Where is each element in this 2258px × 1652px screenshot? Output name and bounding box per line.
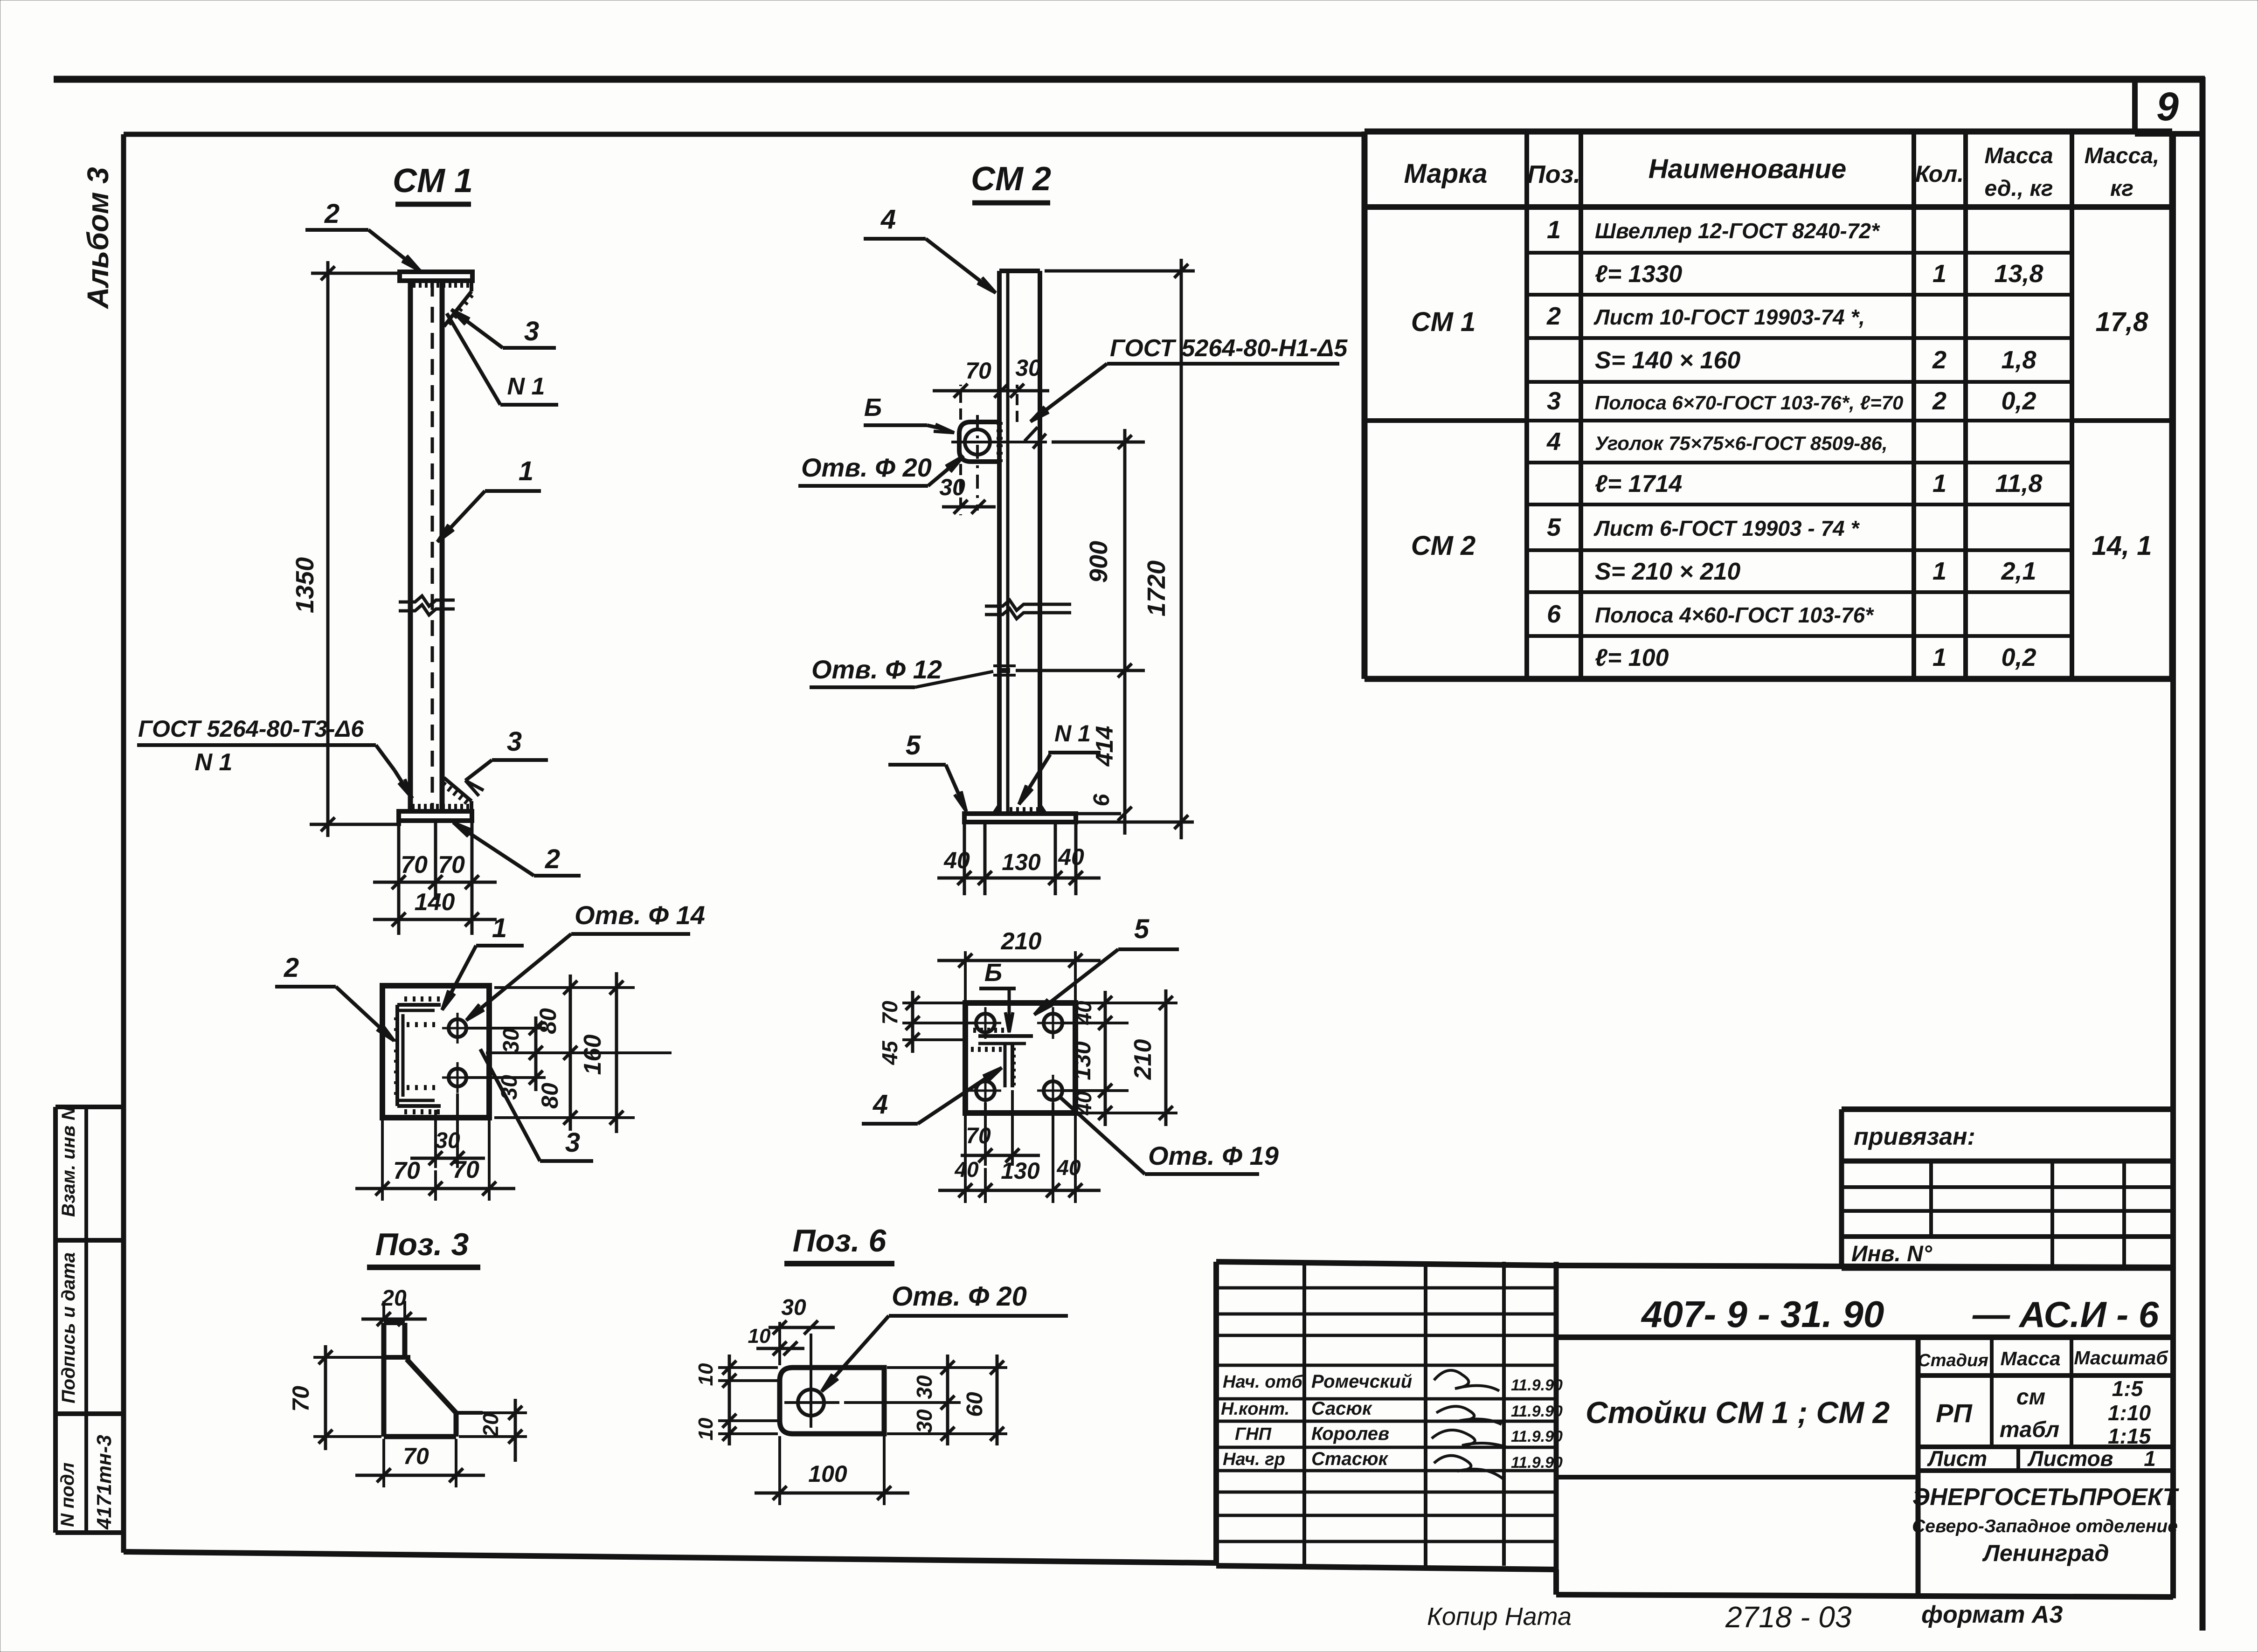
CM1 leader 3 top [451, 310, 556, 348]
svg-text:1: 1 [2144, 1446, 2156, 1471]
CM2 base plate plan (pos.5) [965, 1003, 1075, 1113]
spec row 8: Лист 6 [1547, 513, 1860, 541]
svg-text:13,8: 13,8 [1994, 260, 2043, 288]
svg-text:Отв. Ф 14: Отв. Ф 14 [575, 900, 705, 930]
pos.6 bottom dim 100 [755, 1436, 909, 1505]
svg-text:1: 1 [519, 456, 533, 486]
CM2 tab (pos.6) with hole [951, 415, 1047, 511]
svg-text:ед., кг: ед., кг [1985, 176, 2053, 201]
CM2 leader Отв Ф12 [810, 655, 993, 687]
svg-text:2: 2 [1932, 346, 1946, 374]
inner frame bottom border [124, 1552, 1216, 1563]
svg-text:Нач. гр: Нач. гр [1223, 1450, 1285, 1469]
spec row 11: ℓ= 100 [1595, 643, 2036, 671]
svg-text:100: 100 [808, 1461, 847, 1487]
svg-text:0,2: 0,2 [2001, 643, 2036, 671]
svg-text:N 1: N 1 [1054, 720, 1091, 747]
svg-text:30: 30 [912, 1409, 936, 1433]
CM2 base plate (pos.5) [964, 814, 1194, 822]
CM2 dim 70 30 above tab [933, 355, 1049, 422]
svg-text:Кол.: Кол. [1915, 161, 1964, 187]
CM1 plan hole top Ф14 [442, 1013, 473, 1044]
svg-text:N 1: N 1 [195, 749, 233, 776]
svg-text:70: 70 [438, 851, 465, 878]
CM2 weld mark N1 bottom [1019, 720, 1101, 804]
pos.6 dim 10 top [748, 1325, 804, 1355]
svg-text:45: 45 [878, 1040, 902, 1065]
svg-text:Отв. Ф 20: Отв. Ф 20 [801, 453, 932, 482]
CM2 plan top dim 210 [937, 928, 1101, 1001]
total mass CM1 17,8 [2096, 307, 2149, 337]
svg-text:40: 40 [1058, 844, 1084, 870]
CM1 leader 3 bottom [465, 726, 548, 796]
CM1 plan hole bottom Ф14 [442, 1062, 473, 1093]
svg-text:Марка: Марка [1404, 159, 1487, 189]
page outer right border [2200, 77, 2206, 1631]
svg-text:3: 3 [507, 726, 522, 757]
svg-text:Поз. 3: Поз. 3 [375, 1227, 469, 1262]
CM1 plan right dims 30 30 [466, 1016, 672, 1100]
spec table headers [1404, 144, 2159, 201]
spec rows: марка CM2 [1411, 531, 1476, 561]
CM2 leader Отв Ф20 [798, 453, 963, 486]
svg-text:17,8: 17,8 [2096, 307, 2149, 337]
svg-text:Масса: Масса [1984, 144, 2053, 168]
svg-text:ℓ= 1714: ℓ= 1714 [1595, 470, 1682, 498]
CM1 base plate plan (pos.2) [382, 986, 489, 1118]
CM1 top gusset (pos.3) [444, 281, 473, 326]
CM2 plan left dims 70 45 [878, 991, 976, 1065]
privyazan box [1842, 1109, 2173, 1268]
svg-text:Б: Б [984, 959, 1002, 987]
sheet row Лист Листов 1 [1918, 1446, 2173, 1471]
svg-text:6: 6 [1547, 600, 1561, 628]
CM1 plan right dim 160 [579, 972, 623, 1133]
svg-text:4171тн-3: 4171тн-3 [93, 1435, 116, 1530]
svg-text:ℓ= 1330: ℓ= 1330 [1595, 261, 1682, 288]
svg-text:30: 30 [1015, 355, 1041, 381]
spec table grid [1364, 131, 2172, 679]
svg-text:11,8: 11,8 [1995, 470, 2042, 498]
organization ЭНЕРГОСЕТЬПРОЕКТ [1912, 1484, 2179, 1566]
CM1 weld mark N1 top [447, 313, 558, 405]
svg-text:1: 1 [1932, 557, 1946, 585]
svg-text:5: 5 [1547, 513, 1561, 541]
svg-text:80: 80 [537, 1083, 563, 1109]
svg-text:Северо-Западное отделение: Северо-Западное отделение [1912, 1516, 2178, 1536]
svg-text:N подл: N подл [57, 1462, 78, 1527]
copy annotation Копир Ната 2718-03 [1427, 1600, 1852, 1634]
CM2 leader Б [864, 394, 954, 433]
format annotation формат А3 [1921, 1601, 2063, 1628]
pos.3 dim 70 bottom [355, 1439, 485, 1487]
sheet number 9 [2156, 84, 2179, 129]
CM1 weld under top plate [414, 282, 468, 288]
spec row 2: ℓ= 1330 [1595, 260, 2043, 288]
svg-text:Уголок 75×75×6-ГОСТ 8509-86,: Уголок 75×75×6-ГОСТ 8509-86, [1595, 432, 1888, 454]
svg-text:1: 1 [1932, 470, 1946, 498]
CM2 plan hole Ф19 top-left [970, 1007, 1001, 1039]
svg-text:70: 70 [878, 1001, 902, 1025]
svg-text:5: 5 [906, 730, 921, 760]
svg-text:14, 1: 14, 1 [2092, 531, 2152, 561]
svg-text:2718 - 03: 2718 - 03 [1725, 1600, 1852, 1634]
svg-text:40: 40 [943, 847, 970, 873]
CM1 plan channel section (pos.1) [394, 996, 441, 1114]
svg-text:11.9.90: 11.9.90 [1511, 1376, 1563, 1394]
CM2 plan angle section (pos.4) [972, 1028, 1033, 1087]
CM1 plan leader Отв Ф14 [466, 900, 705, 1020]
svg-text:Поз. 6: Поз. 6 [793, 1223, 887, 1258]
inner frame left border [121, 134, 126, 1553]
svg-text:Взам. инв N: Взам. инв N [58, 1106, 79, 1217]
svg-text:130: 130 [1002, 849, 1041, 875]
svg-text:10: 10 [748, 1325, 771, 1348]
margin box Подпись и дата [55, 1240, 124, 1414]
signature table grid [1216, 1262, 1556, 1570]
pos.6 dim 30 top [769, 1295, 835, 1365]
pos.3 dim 20 right [459, 1399, 527, 1462]
CM1 plan leader 3 [480, 1049, 593, 1161]
CM1 plan bottom dim 30 [410, 1093, 485, 1168]
svg-text:210: 210 [1129, 1039, 1157, 1080]
svg-text:ГОСТ 5264-80-Н1-Δ5: ГОСТ 5264-80-Н1-Δ5 [1110, 335, 1348, 362]
CM2 bottom dims 40 130 40 [937, 824, 1101, 895]
svg-text:Отв. Ф 20: Отв. Ф 20 [892, 1281, 1027, 1312]
svg-text:Стасюк: Стасюк [1311, 1449, 1389, 1469]
svg-text:Стойки СМ 1 ; СМ 2: Стойки СМ 1 ; СМ 2 [1586, 1395, 1890, 1430]
svg-text:130: 130 [1001, 1158, 1040, 1184]
CM2 dim 1720 [1045, 259, 1195, 839]
signature row Нач.отб Ромечский [1223, 1370, 1563, 1394]
CM1 leader 1 (channel) [437, 456, 541, 542]
total mass CM2 14,1 [2092, 531, 2152, 561]
pos.3 dim 20 top [361, 1286, 427, 1326]
svg-text:1720: 1720 [1143, 560, 1171, 616]
svg-text:РП: РП [1936, 1398, 1973, 1428]
spec rows: марка CM1 [1411, 307, 1476, 337]
stage/mass/scale header [1918, 1337, 2173, 1597]
svg-text:Лист: Лист [1927, 1446, 1987, 1471]
svg-text:70: 70 [393, 1157, 420, 1184]
svg-text:1: 1 [1932, 260, 1946, 288]
CM2 plan leader 5 [1034, 914, 1179, 1015]
CM2 base weld fillets [992, 803, 1047, 814]
svg-text:Подпись и дата: Подпись и дата [58, 1252, 79, 1403]
svg-text:Поз.: Поз. [1527, 160, 1580, 188]
privyazan label [1854, 1123, 1975, 1150]
svg-text:20: 20 [381, 1286, 407, 1311]
svg-text:2: 2 [1546, 302, 1561, 330]
signature row Н.конт Сасюк [1221, 1398, 1563, 1424]
svg-text:Королев: Королев [1311, 1424, 1389, 1444]
inner frame top border [124, 132, 1364, 137]
svg-text:Б: Б [864, 394, 882, 422]
svg-text:3: 3 [524, 316, 539, 346]
svg-text:Ромечский: Ромечский [1311, 1371, 1412, 1392]
svg-text:Полоса 4×60-ГОСТ 103-76*: Полоса 4×60-ГОСТ 103-76* [1595, 603, 1874, 627]
CM1 leader 2 bottom [453, 823, 581, 876]
spec row 1: Швеллер 12 [1547, 216, 1880, 244]
svg-text:СМ 1: СМ 1 [393, 162, 473, 200]
CM1 plan right dims 80 80 [494, 975, 635, 1131]
svg-text:5: 5 [1134, 914, 1150, 944]
CM1 bottom gusset (pos.3) [442, 778, 471, 811]
svg-text:привязан:: привязан: [1854, 1123, 1975, 1150]
svg-text:70: 70 [403, 1443, 429, 1469]
pos.6 hole Ф20 [784, 1334, 839, 1428]
svg-text:30: 30 [781, 1295, 806, 1320]
svg-text:2: 2 [324, 199, 339, 229]
svg-text:Листов: Листов [2027, 1446, 2113, 1471]
svg-text:формат А3: формат А3 [1921, 1601, 2063, 1628]
svg-text:20: 20 [478, 1413, 503, 1438]
svg-text:ГНП: ГНП [1235, 1424, 1272, 1444]
svg-text:70: 70 [401, 851, 428, 878]
svg-text:ГОСТ 5264-80-Т3-Δ6: ГОСТ 5264-80-Т3-Δ6 [138, 716, 364, 742]
CM1 weld label GOST 5264-80-T3 [137, 716, 412, 798]
CM2 plan bottom dim 70 [961, 1090, 1040, 1166]
svg-text:2: 2 [284, 953, 299, 983]
signature row Нач.гр Стасюк [1223, 1449, 1563, 1479]
svg-text:Сасюк: Сасюк [1311, 1398, 1372, 1419]
signature row ГНП Королев [1235, 1424, 1563, 1448]
drawing name Стойки СМ1; СМ2 [1556, 1395, 1918, 1477]
svg-text:70: 70 [965, 358, 991, 384]
CM1 bottom dims 70 70 [373, 822, 497, 935]
svg-text:10: 10 [694, 1363, 717, 1386]
pos.6 right dim 60 [963, 1355, 1004, 1445]
CM2 leader 4 angle [864, 204, 996, 293]
spec row 6: Уголок 75×75×6 [1546, 428, 1888, 456]
svg-text:Альбом 3: Альбом 3 [81, 167, 115, 309]
CM2 plan leader 4 [862, 1068, 1002, 1124]
spec row 3: Лист 10 [1546, 302, 1865, 330]
svg-text:80: 80 [535, 1008, 561, 1034]
svg-text:900: 900 [1085, 541, 1113, 583]
svg-text:Полоса 6×70-ГОСТ 103-76*, ℓ=70: Полоса 6×70-ГОСТ 103-76*, ℓ=70 [1595, 392, 1903, 414]
CM2 break symbol [985, 600, 1071, 619]
svg-text:30: 30 [497, 1075, 522, 1100]
svg-text:3: 3 [1547, 387, 1561, 415]
svg-text:Копир Ната: Копир Ната [1427, 1603, 1572, 1631]
CM2 plan right dim 210 [1078, 989, 1177, 1126]
svg-text:70: 70 [452, 1156, 479, 1183]
CM1 break symbol [399, 596, 455, 615]
margin box Инв. N подл. [55, 1414, 124, 1533]
svg-text:10: 10 [694, 1417, 717, 1440]
svg-text:6: 6 [1089, 794, 1114, 806]
svg-text:Швеллер 12-ГОСТ 8240-72*: Швеллер 12-ГОСТ 8240-72* [1595, 219, 1880, 243]
svg-text:1: 1 [492, 913, 507, 943]
svg-text:11.9.90: 11.9.90 [1511, 1428, 1563, 1445]
CM2 leader 5 base plate [888, 730, 966, 811]
svg-text:30: 30 [939, 474, 965, 500]
CM2 plan bottom dims 40 130 40 [938, 1103, 1101, 1203]
CM1 dim 1350 [291, 261, 401, 837]
CM2 angle column (pos.4) [999, 271, 1040, 814]
pos.6 leader Отв Ф20 [822, 1281, 1068, 1391]
svg-text:4: 4 [880, 204, 896, 235]
CM1 plan leader 2 [275, 953, 394, 1041]
sheet number box [2135, 79, 2203, 134]
view title CM1 [393, 162, 473, 204]
svg-text:70: 70 [288, 1386, 314, 1412]
svg-text:1350: 1350 [291, 557, 319, 613]
svg-text:40: 40 [954, 1157, 979, 1182]
svg-text:Отв. Ф 19: Отв. Ф 19 [1148, 1141, 1279, 1170]
svg-text:9: 9 [2156, 84, 2179, 129]
CM2 dim 30 below tab [939, 464, 996, 515]
inv number label [1851, 1242, 1932, 1266]
svg-text:2: 2 [1932, 387, 1946, 415]
svg-text:4: 4 [1546, 428, 1561, 456]
svg-text:Ленинград: Ленинград [1982, 1540, 2109, 1566]
svg-text:11.9.90: 11.9.90 [1511, 1454, 1563, 1472]
CM1 plan bottom dims 70 70 [355, 1120, 515, 1201]
svg-text:140: 140 [415, 889, 455, 916]
svg-text:СМ 1: СМ 1 [1411, 307, 1476, 337]
svg-text:130: 130 [1069, 1041, 1095, 1080]
svg-text:40: 40 [1056, 1155, 1081, 1180]
svg-text:1:5: 1:5 [2112, 1376, 2144, 1401]
detail title Поз.3 [367, 1227, 480, 1267]
spec row 7: ℓ= 1714 [1595, 470, 2043, 498]
svg-text:414: 414 [1091, 726, 1118, 767]
title block outline [1216, 1262, 2173, 1597]
CM2 plan leader Отв Ф19 [1060, 1097, 1279, 1174]
svg-text:СМ 2: СМ 2 [971, 160, 1051, 198]
svg-text:Лист 6-ГОСТ 19903 - 74 *: Лист 6-ГОСТ 19903 - 74 * [1593, 516, 1860, 540]
pos.6 plate outline [780, 1368, 884, 1434]
CM1 bottom dim 140 [373, 889, 497, 926]
CM1 top plate (pos.2) [400, 272, 472, 281]
svg-text:N 1: N 1 [507, 373, 545, 400]
CM1 weld above bottom plate [413, 804, 468, 810]
svg-text:30: 30 [912, 1375, 936, 1399]
svg-text:Н.конт.: Н.конт. [1221, 1399, 1289, 1419]
view title CM2 [971, 160, 1051, 203]
svg-text:1: 1 [1547, 216, 1561, 244]
svg-text:S= 210 × 210: S= 210 × 210 [1595, 558, 1740, 585]
svg-text:60: 60 [963, 1392, 987, 1417]
svg-text:Инв. N°: Инв. N° [1851, 1242, 1932, 1266]
margin box Взам. инв. N [55, 1106, 124, 1240]
svg-text:4: 4 [873, 1089, 888, 1120]
CM2 weld label GOST 5264-80-H1-Δ5 [1025, 335, 1348, 449]
svg-text:Отв. Ф 12: Отв. Ф 12 [811, 655, 942, 684]
page top border [54, 76, 2205, 83]
spec row 5: Полоса 6×70 [1547, 387, 2036, 415]
svg-text:Лист 10-ГОСТ 19903-74 *,: Лист 10-ГОСТ 19903-74 *, [1593, 305, 1865, 329]
CM1 channel column (pos.1) [410, 281, 442, 811]
svg-text:2: 2 [545, 844, 560, 874]
svg-text:3: 3 [565, 1127, 580, 1158]
CM2 plan hole Ф19 bottom-right [1037, 1075, 1069, 1106]
spec row 4: S= 140 × 160 [1595, 346, 2036, 374]
svg-text:кг: кг [2110, 176, 2133, 201]
CM1 bottom plate (pos.2) [399, 811, 472, 821]
svg-text:30: 30 [435, 1128, 460, 1153]
svg-text:Нач. отб: Нач. отб [1223, 1372, 1303, 1392]
svg-text:Стадия: Стадия [1918, 1351, 1988, 1370]
svg-text:Масса,: Масса, [2085, 144, 2160, 168]
CM2 plan leader Б [979, 959, 1016, 1032]
pos.3 dim 70 left [288, 1345, 381, 1450]
svg-text:1: 1 [1932, 643, 1946, 671]
document number 407-9-31.90 — АС.И-6 [1556, 1293, 2173, 1337]
svg-text:210: 210 [1001, 928, 1042, 955]
svg-text:—: — [1972, 1293, 2010, 1335]
svg-text:30: 30 [499, 1028, 524, 1053]
svg-text:АС.И - 6: АС.И - 6 [2018, 1294, 2159, 1335]
CM2 plan hole Ф19 top-right [1037, 1007, 1069, 1039]
CM1 leader 2 top [305, 199, 420, 271]
CM2 dim 900 and 414 [1016, 429, 1145, 835]
svg-text:СМ 2: СМ 2 [1411, 531, 1476, 561]
CM2 hole Ф12 on column [993, 666, 1016, 675]
pos.3 gusset outline [384, 1323, 483, 1437]
svg-text:S= 140 × 160: S= 140 × 160 [1595, 347, 1740, 374]
spec row 9: S= 210 × 210 [1595, 557, 2036, 585]
svg-text:0,2: 0,2 [2001, 387, 2036, 415]
spec row 10: Полоса 4×60 [1547, 600, 1874, 628]
svg-text:11.9.90: 11.9.90 [1511, 1403, 1563, 1420]
svg-text:Масштаб: Масштаб [2074, 1347, 2168, 1369]
pos.6 left dims 10 10 [694, 1355, 778, 1445]
svg-text:160: 160 [579, 1035, 606, 1075]
svg-text:Масса: Масса [2001, 1348, 2061, 1369]
album label: Альбом 3 [81, 167, 115, 309]
detail title Поз.6 [784, 1223, 894, 1264]
CM2 plan hole Ф19 bottom-left [970, 1075, 1001, 1106]
svg-text:см: см [2016, 1385, 2045, 1410]
svg-text:70: 70 [966, 1124, 991, 1148]
svg-text:2,1: 2,1 [2001, 557, 2036, 585]
pos.6 right dims 30 30 [844, 1355, 1007, 1445]
svg-text:407- 9 - 31. 90: 407- 9 - 31. 90 [1641, 1293, 1884, 1335]
svg-text:Наименование: Наименование [1648, 154, 1846, 184]
stage values РП см табл 1:5 1:10 1:15 [1918, 1376, 2173, 1448]
svg-text:табл: табл [2000, 1417, 2059, 1442]
svg-text:1:10: 1:10 [2108, 1401, 2151, 1425]
CM2 plan right dims 40 130 40 [1063, 991, 1129, 1126]
svg-text:ЭНЕРГОСЕТЬПРОЕКТ: ЭНЕРГОСЕТЬПРОЕКТ [1912, 1484, 2180, 1511]
inner frame right border [2170, 131, 2176, 1598]
CM1 plan leader 1 [442, 913, 524, 1010]
svg-text:ℓ= 100: ℓ= 100 [1595, 644, 1669, 671]
svg-text:1,8: 1,8 [2001, 346, 2036, 374]
